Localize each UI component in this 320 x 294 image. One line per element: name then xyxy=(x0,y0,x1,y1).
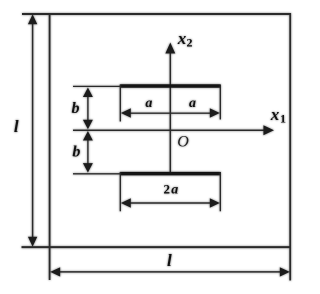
plate bottom edge xyxy=(22,246,291,248)
b dimension top xyxy=(87,93,89,124)
plate left edge xyxy=(49,13,51,280)
extension line left of bottom crack xyxy=(73,173,120,175)
x1 axis xyxy=(73,129,267,131)
crack end tick bottom-left xyxy=(119,172,121,211)
extension line left of top crack xyxy=(73,85,120,87)
bottom dimension line l xyxy=(56,271,284,273)
b dimension bottom xyxy=(87,137,89,168)
x2 axis xyxy=(169,50,171,174)
left dimension line l xyxy=(32,21,34,240)
plate right edge xyxy=(289,13,291,281)
crack end tick top-right xyxy=(219,85,221,120)
top crack (2a) xyxy=(120,84,220,88)
crack end tick bottom-right xyxy=(219,172,221,211)
a-a dimension line xyxy=(126,112,215,114)
soft halo: blurred duplicate of the whole figure xyxy=(14,13,291,281)
bottom crack (2a) xyxy=(120,172,220,176)
plate top edge xyxy=(22,13,291,15)
2a dimension line xyxy=(126,202,215,204)
crack end tick top-left xyxy=(119,85,121,122)
